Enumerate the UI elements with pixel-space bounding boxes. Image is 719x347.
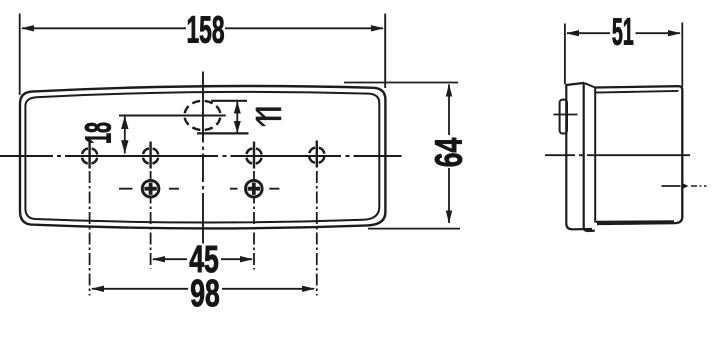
- svg-text:51: 51: [612, 12, 634, 53]
- hole column centerline 4: [316, 171, 318, 296]
- dashed circle (lamp feature): [185, 101, 221, 130]
- dim 45 arrows: [152, 256, 253, 262]
- side view tab tick line: [554, 114, 578, 116]
- side view lens outline: [566, 83, 592, 229]
- dim 64 text: [427, 137, 470, 167]
- svg-text:158: 158: [186, 8, 224, 50]
- dim 11 reference line bottom: [197, 132, 249, 134]
- side view bulb axis line with arrow: [662, 185, 681, 187]
- side view housing bottom accent: [596, 220, 674, 223]
- dim 158 text: [186, 8, 224, 50]
- hole 3: [246, 142, 262, 169]
- dim 64 extension line top: [344, 82, 458, 84]
- dim 18 text: [80, 122, 120, 144]
- side view lens inner edge: [584, 83, 595, 231]
- dim 64 line: [448, 85, 450, 224]
- dim 158 arrows: [21, 25, 384, 31]
- hole column centerline 2: [150, 171, 152, 269]
- lamp front view inner outline: [25, 92, 379, 223]
- side view centerline: [545, 154, 690, 156]
- hole column centerline 1: [89, 171, 91, 296]
- dim 51 arrows: [566, 30, 681, 36]
- dim 45 text: [189, 237, 219, 280]
- circle horizontal crosshair / 18 reference line: [119, 115, 226, 117]
- dim 98 line: [92, 288, 314, 290]
- dim 158 extension line right: [384, 14, 386, 89]
- dim 18 line with arrows: [124, 117, 126, 154]
- dim 11 text: [256, 107, 281, 126]
- dim 51 line: [567, 32, 680, 34]
- side view housing top seam: [596, 91, 679, 93]
- screw 2: [230, 180, 279, 197]
- dim 11 reference line top: [211, 100, 247, 102]
- vertical centerline front view: [202, 72, 204, 244]
- svg-text:18: 18: [80, 122, 120, 144]
- horizontal centerline front view: [0, 155, 402, 157]
- dim 64 extension line bottom: [368, 228, 460, 230]
- dim 158 line: [22, 27, 383, 29]
- svg-text:98: 98: [190, 271, 220, 314]
- dim 64 arrows: [446, 84, 452, 224]
- dim 98 arrows: [91, 286, 315, 292]
- dim 158 extension line left: [19, 14, 21, 96]
- lamp front view outer outline: [20, 86, 385, 228]
- dim 11 line with arrows: [236, 102, 238, 134]
- hole 4: [309, 141, 325, 168]
- dim 51 extension line right: [681, 23, 683, 88]
- side view lens-to-housing slope: [584, 83, 595, 87]
- hole 1: [82, 142, 98, 169]
- screw 1: [119, 180, 179, 197]
- side view housing outline top/right/bottom: [595, 86, 682, 224]
- side view housing front edge: [594, 88, 596, 223]
- hole 2: [143, 142, 159, 169]
- dim 45 line: [153, 258, 252, 260]
- svg-text:64: 64: [427, 137, 470, 167]
- dim 51 text: [612, 12, 634, 53]
- dim 98 text: [190, 271, 220, 314]
- side view mounting tab: [560, 100, 567, 134]
- dim 51 extension line left: [564, 24, 566, 85]
- hole column centerline 3: [253, 171, 255, 270]
